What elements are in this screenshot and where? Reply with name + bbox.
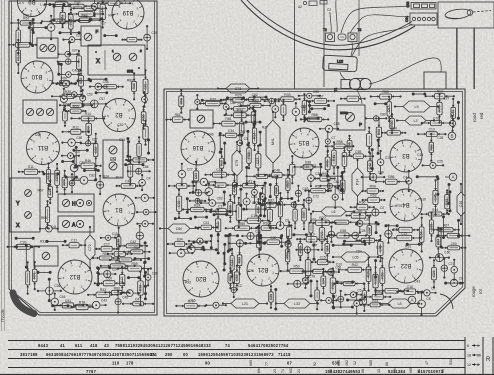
wire W454 xyxy=(333,296,335,309)
svg-text:L05: L05 xyxy=(353,255,359,259)
svg-text:C27: C27 xyxy=(252,201,258,205)
wire W275 xyxy=(259,131,261,146)
wire W443 xyxy=(445,282,462,284)
wire W382 xyxy=(293,234,308,236)
resistor R236 xyxy=(306,94,335,103)
svg-text:B4: B4 xyxy=(402,201,410,207)
capacitor C406 xyxy=(295,247,319,253)
resistor R417 xyxy=(286,239,290,271)
svg-text:21: 21 xyxy=(297,369,301,373)
svg-text:C16: C16 xyxy=(407,285,413,289)
tube socket B10 xyxy=(21,61,53,93)
capacitor C296 xyxy=(178,163,186,186)
svg-text:C52: C52 xyxy=(235,274,239,280)
capacitor C435 xyxy=(287,280,308,287)
wire W192 xyxy=(15,246,32,248)
svg-text:74: 74 xyxy=(225,343,231,348)
svg-text:R28: R28 xyxy=(132,83,136,89)
wire W289 xyxy=(320,163,322,176)
resistor R310 xyxy=(375,175,408,184)
svg-text:C72: C72 xyxy=(88,244,92,251)
capacitor C359 xyxy=(365,209,387,216)
svg-text:R93: R93 xyxy=(185,281,191,285)
svg-text:B: B xyxy=(450,134,453,139)
wire W543 xyxy=(310,280,312,297)
capacitor C539 xyxy=(444,279,464,286)
resistor R174 xyxy=(128,156,133,186)
svg-text:C14: C14 xyxy=(417,153,423,157)
svg-text:C54: C54 xyxy=(420,231,424,237)
wire W506 xyxy=(337,166,339,189)
svg-text:B9: B9 xyxy=(28,0,36,4)
capacitor C432 xyxy=(451,259,458,281)
capacitor C187 xyxy=(136,221,154,227)
left board corner bracket xyxy=(13,293,34,314)
resistor R408 xyxy=(325,235,330,262)
capacitor C341 xyxy=(306,190,312,210)
resistor R447 xyxy=(364,290,391,299)
svg-text:C43: C43 xyxy=(414,279,420,283)
wire W248 xyxy=(309,104,330,106)
svg-text:C45: C45 xyxy=(122,296,128,300)
capacitor C530 xyxy=(169,249,194,257)
wire W481 xyxy=(95,92,108,94)
cable loom arc xyxy=(241,0,415,50)
capacitor C541 xyxy=(231,282,237,298)
svg-text:C29: C29 xyxy=(432,271,436,277)
resistor R258 xyxy=(300,113,329,122)
wire W483 xyxy=(147,139,149,154)
capacitor C457 xyxy=(418,292,426,316)
left printed circuit board outline xyxy=(9,1,157,315)
tube socket B9 xyxy=(18,0,47,17)
resistor R326 xyxy=(340,171,345,200)
resistor R553 xyxy=(51,90,85,99)
resistor R167 xyxy=(18,165,44,174)
svg-text:C23: C23 xyxy=(76,34,82,38)
svg-text:C62: C62 xyxy=(252,93,258,97)
svg-text:60: 60 xyxy=(329,369,333,373)
svg-text:B18: B18 xyxy=(127,69,133,73)
capacitor C61 xyxy=(303,1,327,6)
wire W160 xyxy=(127,141,129,162)
resistor R199 xyxy=(92,252,119,260)
resistor R327 xyxy=(362,184,385,193)
svg-text:C27: C27 xyxy=(443,96,449,100)
svg-text:00: 00 xyxy=(183,352,189,357)
resistor R317 xyxy=(232,173,236,204)
wire W334 xyxy=(240,188,242,206)
resistor R133 xyxy=(52,77,77,86)
resistor R444 xyxy=(269,285,274,309)
resistor R254 xyxy=(213,117,245,126)
resistor R393 xyxy=(419,217,424,253)
wire W456 xyxy=(347,299,362,301)
resistor R555 xyxy=(10,17,42,25)
wire W557 xyxy=(104,35,118,37)
connector C63 xyxy=(406,1,436,9)
svg-text:9443: 9443 xyxy=(38,343,49,348)
svg-text:13: 13 xyxy=(477,353,481,357)
svg-text:R97: R97 xyxy=(61,77,67,81)
svg-text:C50: C50 xyxy=(451,242,457,246)
resistor R243 xyxy=(227,103,254,112)
svg-text:67: 67 xyxy=(287,361,293,366)
svg-text:S27: S27 xyxy=(310,164,316,168)
resistor R330 xyxy=(177,189,182,219)
wire W410 xyxy=(343,243,367,245)
capacitor C62 xyxy=(338,34,346,40)
svg-text:R81: R81 xyxy=(225,117,231,121)
svg-text:R84: R84 xyxy=(391,127,397,131)
svg-text:T3: T3 xyxy=(358,28,362,32)
svg-text:R12: R12 xyxy=(73,125,79,129)
wire W509 xyxy=(269,184,271,198)
svg-text:C24: C24 xyxy=(81,15,87,19)
svg-text:R86: R86 xyxy=(388,175,394,179)
resistor R451 xyxy=(175,299,206,308)
svg-text:B3: B3 xyxy=(402,152,410,158)
coil L45 xyxy=(312,207,355,216)
resistor R291 xyxy=(368,152,373,180)
page border lines xyxy=(2,0,5,331)
svg-text:L33: L33 xyxy=(294,302,300,306)
svg-text:C47: C47 xyxy=(135,298,141,302)
svg-text:T4: T4 xyxy=(334,88,338,92)
capacitor C292 xyxy=(377,150,384,175)
wire W128 xyxy=(69,41,71,55)
resistor R207 xyxy=(26,261,30,295)
wire W351 xyxy=(243,208,267,210)
wire W339 xyxy=(280,197,293,199)
resistor R290 xyxy=(325,151,330,176)
wire W216 xyxy=(48,278,50,302)
resistor R205 xyxy=(117,262,152,271)
resistor R521 xyxy=(309,213,313,244)
resistor R580 xyxy=(433,224,460,232)
svg-text:S24: S24 xyxy=(103,174,109,178)
wire W402 xyxy=(259,234,261,250)
wire W562 xyxy=(37,271,51,273)
pilot lamp holder xyxy=(438,2,494,28)
tube socket B16 xyxy=(181,131,215,165)
capacitor C452 xyxy=(205,302,227,308)
svg-text:C55: C55 xyxy=(355,150,361,154)
wire W313 xyxy=(192,181,194,194)
svg-text:C26: C26 xyxy=(54,284,60,288)
resistor R434 xyxy=(234,265,239,291)
svg-text:8: 8 xyxy=(467,344,469,348)
svg-text:C35: C35 xyxy=(152,271,158,275)
svg-text:R56: R56 xyxy=(138,285,142,291)
svg-text:B2: B2 xyxy=(115,111,123,117)
tube socket B21 xyxy=(247,254,279,286)
svg-text:H: H xyxy=(72,202,76,208)
resistor R554 xyxy=(59,103,93,107)
capacitor C241 xyxy=(223,98,229,115)
svg-text:C46: C46 xyxy=(60,295,66,299)
svg-text:86: 86 xyxy=(385,362,389,366)
svg-text:C67: C67 xyxy=(240,130,246,134)
resistor R418 xyxy=(311,256,335,265)
transistor T3 xyxy=(348,28,361,42)
tube socket B2 xyxy=(103,99,136,132)
resistor R169 xyxy=(55,163,60,193)
svg-text:C30: C30 xyxy=(270,236,276,240)
wire W556 xyxy=(31,29,33,47)
svg-text:C17: C17 xyxy=(104,242,110,246)
svg-text:R31: R31 xyxy=(40,240,46,244)
capacitor C267 xyxy=(319,125,339,132)
resistor R442 xyxy=(373,266,378,296)
capacitor C377 xyxy=(241,232,259,239)
harness wire numbers xyxy=(20,343,444,374)
svg-text:C32: C32 xyxy=(177,200,181,206)
wire W486 xyxy=(95,168,97,180)
resistor R197 xyxy=(118,240,148,248)
resistor R462 xyxy=(41,19,76,24)
capacitor C493 xyxy=(120,290,140,297)
resistor R238 xyxy=(370,90,402,99)
chassis divider line xyxy=(294,0,296,89)
chassis divider line 2 xyxy=(323,0,325,87)
resistor R345 xyxy=(433,179,438,215)
wire W469 xyxy=(53,5,55,21)
svg-text:L8: L8 xyxy=(398,302,402,306)
svg-text:rot: rot xyxy=(478,288,483,294)
capacitor C181 xyxy=(97,175,104,195)
resistor R386 xyxy=(328,229,358,238)
harness vertical numbers xyxy=(249,359,453,373)
svg-text:S17: S17 xyxy=(120,277,124,283)
svg-text:7767: 7767 xyxy=(86,369,97,374)
svg-text:S11: S11 xyxy=(28,165,34,169)
capacitor C419 xyxy=(429,254,450,262)
svg-text:R90: R90 xyxy=(370,184,376,188)
svg-text:R42: R42 xyxy=(352,263,358,267)
capacitor C171 xyxy=(72,176,96,184)
capacitor C549 xyxy=(354,292,360,315)
resistor R195 xyxy=(95,242,118,251)
coil L49 xyxy=(379,299,420,308)
wire W124 xyxy=(29,22,31,45)
svg-text:R15: R15 xyxy=(216,222,220,228)
resistor R405 xyxy=(298,238,302,261)
svg-text:B11: B11 xyxy=(37,144,48,150)
capacitor C144 xyxy=(141,91,147,108)
svg-text:60: 60 xyxy=(441,369,445,373)
svg-text:C25: C25 xyxy=(151,31,157,35)
wire W257 xyxy=(304,117,319,119)
wire W130 xyxy=(60,63,62,84)
svg-text:C12: C12 xyxy=(230,260,234,266)
svg-text:R10: R10 xyxy=(58,0,64,2)
resistor R395 xyxy=(436,233,470,238)
svg-text:C34: C34 xyxy=(228,129,234,133)
svg-text:C35: C35 xyxy=(74,150,80,154)
resistor R568 xyxy=(241,93,269,101)
svg-text:X: X xyxy=(96,59,100,65)
svg-text:B21: B21 xyxy=(257,266,268,272)
wire W500 xyxy=(308,101,310,114)
resistor R204 xyxy=(100,260,136,268)
svg-text:611: 611 xyxy=(75,343,83,348)
resistor R117 xyxy=(68,12,104,17)
svg-text:C33: C33 xyxy=(23,14,29,18)
svg-text:R35: R35 xyxy=(367,271,371,277)
wire W398 xyxy=(193,241,208,243)
tube socket B15 xyxy=(289,128,319,158)
module A-unit xyxy=(58,216,94,232)
svg-text:90: 90 xyxy=(205,361,211,366)
svg-text:A2: A2 xyxy=(298,5,302,9)
svg-text:C46: C46 xyxy=(274,168,280,172)
resistor R159 xyxy=(94,133,98,168)
resistor R567 xyxy=(223,94,255,103)
resistor R244 xyxy=(240,99,272,107)
resistor R324 xyxy=(304,184,332,192)
svg-text:18: 18 xyxy=(467,353,471,357)
svg-text:B20: B20 xyxy=(195,275,206,281)
svg-text:C7: C7 xyxy=(331,136,335,140)
capacitor C214 xyxy=(145,268,151,286)
capacitor C487 xyxy=(135,194,155,201)
resistor R558 xyxy=(76,50,81,75)
resistor R576 xyxy=(205,205,237,214)
wire W560 xyxy=(62,160,75,162)
capacitor C514 xyxy=(260,187,266,206)
resistor R261 xyxy=(390,113,395,134)
capacitor C222 xyxy=(86,301,107,309)
capacitor C294 xyxy=(422,162,445,168)
svg-text:S33: S33 xyxy=(210,97,216,101)
svg-text:3817188: 3817188 xyxy=(20,352,38,357)
wire W231 xyxy=(253,96,267,98)
resistor R499 xyxy=(302,93,306,122)
wire W401 xyxy=(245,242,266,244)
wire W494 xyxy=(144,285,146,300)
svg-text:C15: C15 xyxy=(401,231,407,235)
resistor R153 xyxy=(143,120,148,146)
wire W209 xyxy=(97,268,99,285)
svg-text:R34: R34 xyxy=(275,187,279,193)
capacitor C455 xyxy=(338,290,344,309)
svg-text:R106: R106 xyxy=(16,52,20,60)
svg-text:C56: C56 xyxy=(348,142,352,148)
resistor R281 xyxy=(429,133,433,162)
svg-text:rouge: rouge xyxy=(471,286,476,297)
resistor R411 xyxy=(378,235,383,263)
label rood red xyxy=(472,112,484,122)
resistor R123 xyxy=(69,9,73,36)
wire W572 xyxy=(457,101,459,119)
svg-text:C66: C66 xyxy=(251,195,257,199)
wire W306 xyxy=(326,175,343,177)
resistor R148 xyxy=(63,105,68,127)
wire W372 xyxy=(355,223,379,225)
wire W220 xyxy=(52,305,69,307)
wire W470 xyxy=(78,20,91,22)
svg-text:47: 47 xyxy=(425,361,429,365)
cable pair xyxy=(457,28,475,89)
resistor R529 xyxy=(356,238,381,242)
svg-text:B22: B22 xyxy=(400,262,411,268)
svg-text:5kΩ/2: 5kΩ/2 xyxy=(340,111,348,115)
resistor R439 xyxy=(330,267,336,303)
resistor R233 xyxy=(274,93,300,102)
wire W352 xyxy=(263,200,265,217)
resistor R573 xyxy=(381,127,407,136)
svg-text:S22: S22 xyxy=(79,78,83,84)
resistor R278 xyxy=(325,140,355,148)
capacitor C430 xyxy=(441,258,447,279)
capacitor C311 xyxy=(406,170,412,192)
svg-text:C0: C0 xyxy=(380,206,384,210)
coil L43 xyxy=(396,116,435,125)
svg-text:R50: R50 xyxy=(293,265,299,269)
capacitor C495 xyxy=(51,293,58,312)
resistor R427 xyxy=(366,257,371,292)
resistor R384 xyxy=(319,218,324,251)
capacitor C179 xyxy=(69,173,75,193)
wire W480 xyxy=(88,78,107,80)
capacitor C299 xyxy=(192,178,217,185)
wire W518 xyxy=(194,216,208,218)
capacitor C189 xyxy=(100,235,116,240)
wire W471 xyxy=(28,27,47,29)
svg-text:A: A xyxy=(410,298,413,303)
svg-text:S15: S15 xyxy=(304,118,310,122)
wire W362 xyxy=(174,218,192,220)
svg-text:X: X xyxy=(16,223,20,229)
svg-text:C53: C53 xyxy=(87,92,93,96)
svg-text:C41: C41 xyxy=(51,225,57,229)
svg-text:663490844766197779497405214307: 6634908447661977794974052143078350711568… xyxy=(46,352,157,357)
capacitor C154 xyxy=(61,139,82,147)
svg-text:C66: C66 xyxy=(228,205,232,211)
svg-text:C25: C25 xyxy=(302,105,306,111)
svg-text:C10: C10 xyxy=(336,262,342,266)
svg-text:6157010973: 6157010973 xyxy=(418,369,444,374)
svg-text:694: 694 xyxy=(257,367,261,373)
svg-text:R74: R74 xyxy=(63,179,67,185)
resistor R460 xyxy=(73,6,107,11)
svg-text:8: 8 xyxy=(477,363,479,367)
tube socket B12 xyxy=(58,260,92,294)
wire W271 xyxy=(219,132,221,153)
svg-text:C5: C5 xyxy=(357,289,361,293)
svg-text:C61: C61 xyxy=(333,180,339,184)
svg-text:758813193284530941212677124559: 75881319328453094121267712455916948332 xyxy=(115,343,211,348)
svg-text:R57: R57 xyxy=(317,94,323,98)
resistor R551 xyxy=(360,299,391,307)
wire W379 xyxy=(257,226,259,243)
capacitor C146 xyxy=(81,100,107,108)
resistor R371 xyxy=(325,220,359,224)
svg-text:C3: C3 xyxy=(244,137,248,141)
svg-text:41: 41 xyxy=(60,343,66,348)
svg-text:C36: C36 xyxy=(269,294,273,300)
svg-text:R80: R80 xyxy=(429,144,433,150)
resistor R433 xyxy=(228,267,233,289)
svg-text:R79: R79 xyxy=(326,270,332,274)
tube socket B19 xyxy=(112,0,144,29)
svg-text:C42: C42 xyxy=(130,240,136,244)
svg-text:C63: C63 xyxy=(406,1,410,7)
capacitor C191 xyxy=(136,225,143,247)
capacitor C263 xyxy=(449,115,455,132)
resistor R570 xyxy=(281,99,286,121)
